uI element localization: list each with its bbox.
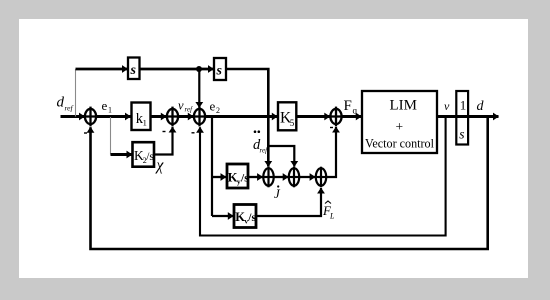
svg-text:χ: χ [155, 157, 165, 174]
block K5 [278, 102, 296, 130]
wire: d feedback from output down and into junction 1 [91, 117, 488, 250]
wire: into block K2/s [111, 153, 133, 156]
svg-text:d: d [57, 95, 65, 111]
block integrator 1/s [456, 91, 468, 145]
wire: horizontal into block s1 [76, 68, 128, 71]
svg-text:L: L [329, 212, 335, 221]
summing junction 4 [330, 107, 341, 127]
wire: K_v/s output up into junction 7 (load force estimate) [256, 188, 321, 216]
summing junction 3 [194, 107, 205, 127]
block LIM + Vector control [362, 91, 437, 153]
wire: junction 7 output up into junction 4 [326, 127, 336, 177]
svg-text:+: + [396, 119, 404, 134]
wire: s1 output to s2 input [140, 68, 214, 71]
block K_y/s [227, 164, 249, 188]
node: minus sign at junction 1 feedback [84, 132, 87, 134]
wire: d_ref input into summing junction 1 [61, 115, 85, 118]
wire: branch from d_ref up to derivative block s (thin vertical) [75, 69, 77, 117]
svg-text:1: 1 [143, 118, 147, 128]
svg-text:s: s [216, 64, 223, 79]
svg-text:e: e [102, 98, 108, 113]
svg-text:F: F [344, 98, 352, 114]
block k1 [132, 103, 151, 131]
summing junction 5 [263, 167, 273, 188]
wire: junction 5 to junction 6 [274, 176, 288, 178]
svg-text:ref: ref [185, 106, 194, 114]
svg-text:ref: ref [260, 147, 269, 155]
svg-text:q: q [353, 106, 358, 116]
wire: K2/s output up into summing junction 2 [154, 127, 173, 155]
node: junction dot on derivative line [196, 66, 202, 72]
wire: e2 main line into block K5 [205, 115, 277, 118]
svg-text:d: d [477, 99, 485, 114]
block K_v/s [234, 205, 256, 228]
svg-text:s: s [459, 127, 464, 142]
wire: junction 2 to junction 3 [178, 115, 193, 118]
wire: K_y/s output into summing junction 5 [248, 176, 262, 178]
summing junction 2 [167, 107, 178, 127]
node: minus sign at junction 3 feedback [192, 132, 195, 134]
node: minus sign at junction 2 feedback [163, 131, 166, 133]
svg-text:e: e [210, 99, 216, 114]
svg-text:ref: ref [65, 104, 74, 113]
wire: branch into K_v/s [212, 215, 233, 217]
wire: s2 output right and down into summing junction 5 (accel ref) [226, 69, 268, 167]
wire: v feedback from LIM output down and into junction 3 [200, 117, 446, 236]
svg-text:v: v [178, 99, 184, 113]
wire: K5 output into summing junction 4 [297, 115, 330, 118]
wire: e2 branch down feeding K_y/s and K_v/s [211, 117, 213, 217]
block K2/s [133, 142, 155, 167]
wire: thin branch from e1 down to K2/s input [110, 117, 112, 155]
svg-text:v: v [444, 99, 450, 113]
svg-text:LIM: LIM [390, 98, 418, 114]
node: J-dot label [274, 185, 281, 201]
block s2 (second derivative) [214, 58, 226, 80]
wire: accel ref branch right and down into summing junction 6 [268, 146, 294, 167]
wire: junction 6 to junction 7 [299, 176, 315, 178]
wire: junction 4 into LIM block [342, 115, 362, 118]
node: F_L hat label [322, 201, 335, 221]
node: minus sign at junction 4 feedback [330, 127, 333, 129]
summing junction 1 [85, 107, 96, 127]
svg-text:1: 1 [108, 106, 112, 115]
svg-text:/s: /s [146, 151, 154, 163]
wire: junction1 to block k1 [96, 115, 130, 118]
wire: LIM output through integrator to d output arrow [437, 115, 499, 118]
svg-text:/s: /s [247, 212, 256, 224]
wire: k1 output into junction 2 [151, 115, 167, 118]
svg-text:Vector control: Vector control [365, 136, 434, 151]
wire: dot down into summing junction 3 (velocity ref path) [198, 69, 200, 108]
wire: branch into K_y/s [212, 176, 226, 178]
svg-text:2: 2 [216, 106, 220, 115]
summing junction 6 [289, 167, 299, 188]
svg-text:1: 1 [460, 98, 467, 113]
svg-text:J: J [274, 186, 281, 201]
svg-text:s: s [130, 63, 137, 78]
svg-text:5: 5 [290, 118, 295, 128]
block s1 (derivative) [128, 58, 140, 80]
svg-text:/s: /s [240, 173, 249, 185]
summing junction 7 [316, 167, 326, 188]
node: d_ref double-dot label [253, 130, 268, 154]
